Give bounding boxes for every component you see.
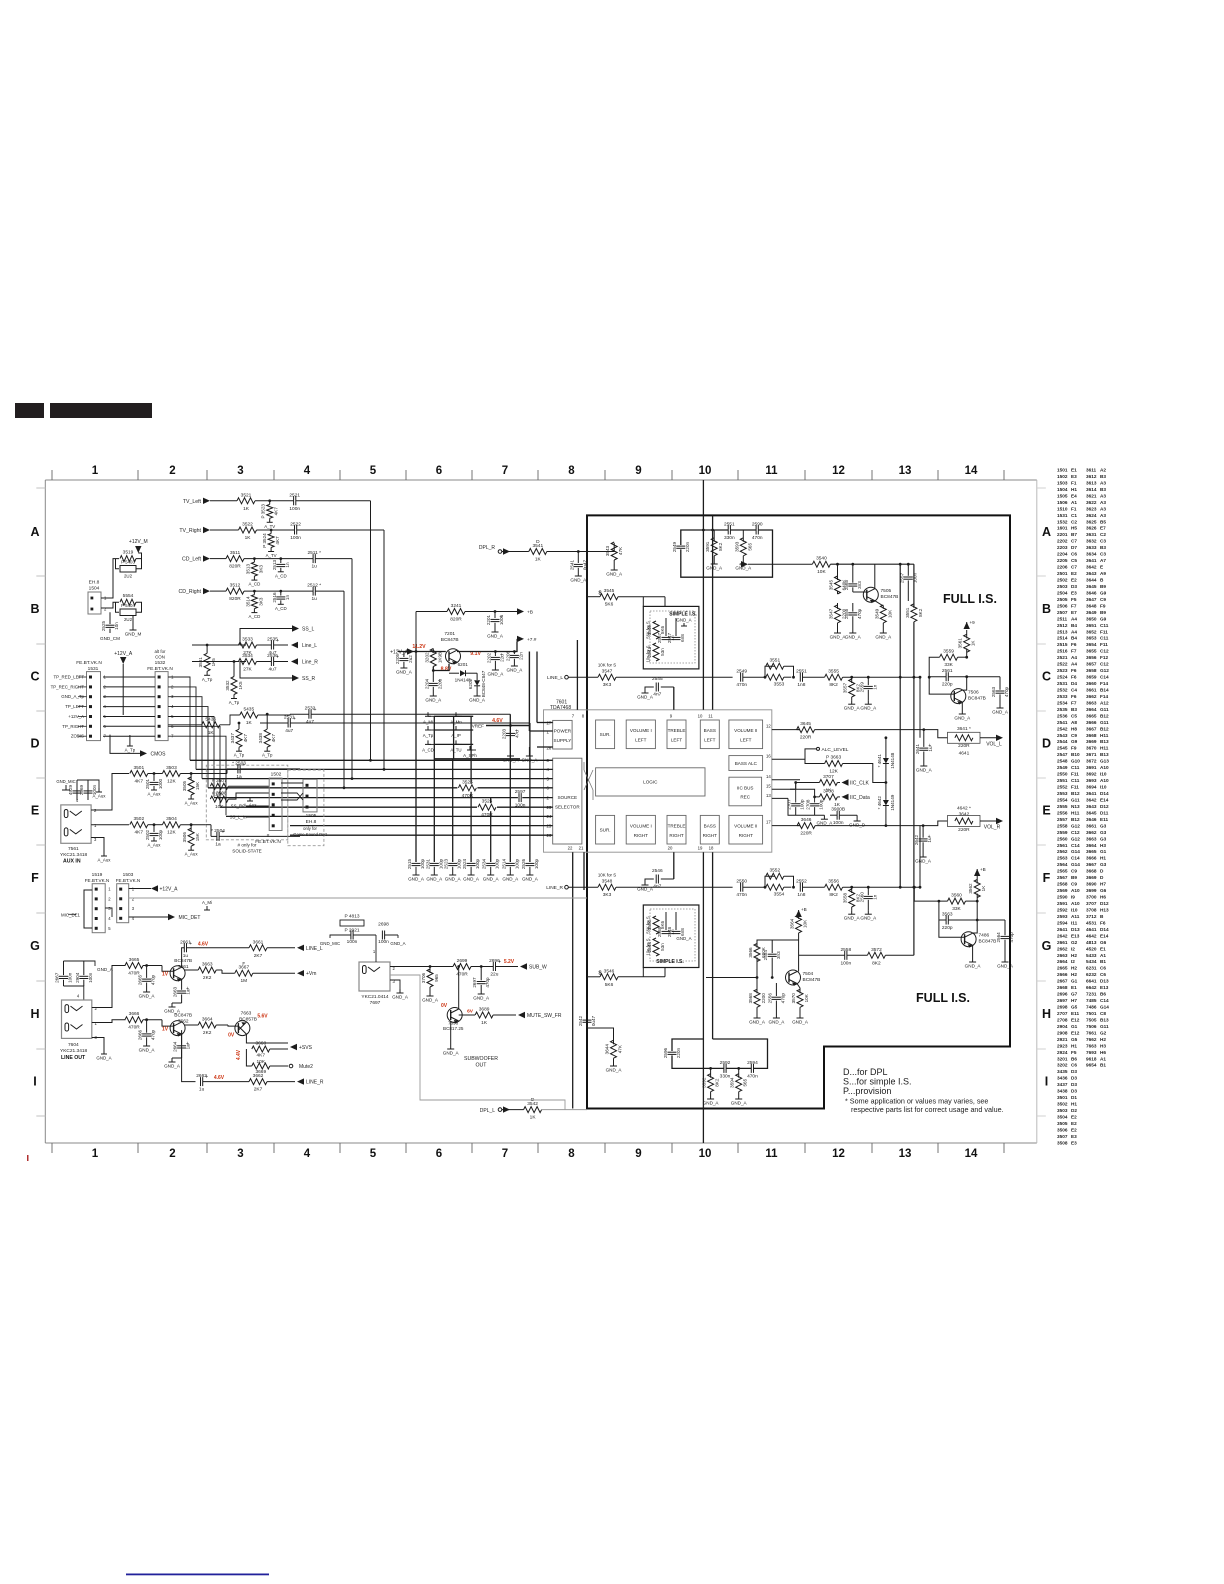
wire	[972, 945, 974, 958]
svg-text:3n3: 3n3	[776, 951, 781, 959]
capacitor 2559 1n shunt	[867, 676, 870, 679]
svg-text:3691: 3691	[1086, 765, 1097, 770]
wire	[168, 677, 190, 760]
svg-text:2541: 2541	[1057, 720, 1068, 725]
svg-text:3646: 3646	[1086, 817, 1097, 822]
svg-text:C6: C6	[1100, 972, 1106, 977]
svg-text:5K6: 5K6	[605, 602, 614, 608]
wire	[958, 656, 967, 658]
svg-text:3438: 3438	[1057, 1089, 1068, 1094]
svg-text:2561: 2561	[942, 668, 953, 674]
svg-text:2708: 2708	[806, 799, 811, 810]
svg-text:F7: F7	[1071, 603, 1077, 608]
wire	[796, 782, 820, 784]
svg-text:2200: 2200	[761, 993, 766, 1004]
capacitor 2531 4u7	[287, 719, 289, 728]
svg-text:3519: 3519	[123, 550, 134, 556]
svg-text:3646: 3646	[1086, 590, 1097, 595]
svg-text:3507: 3507	[1057, 1134, 1068, 1139]
svg-text:B: B	[1042, 602, 1051, 616]
svg-text:2559: 2559	[859, 682, 864, 693]
svg-text:BC847B: BC847B	[174, 1013, 192, 1019]
svg-text:C11: C11	[1100, 623, 1109, 628]
svg-text:A3: A3	[1100, 493, 1106, 498]
svg-text:H7: H7	[1100, 882, 1106, 887]
svg-text:2555: 2555	[1057, 804, 1068, 809]
ground GND_A	[509, 867, 511, 871]
resistor 3560 33K	[948, 898, 966, 904]
svg-text:3526: 3526	[482, 799, 493, 805]
svg-text:GND_A: GND_A	[521, 758, 538, 763]
svg-text:22n: 22n	[518, 652, 523, 660]
svg-text:1510: 1510	[1057, 506, 1068, 511]
svg-text:2908: 2908	[1057, 1030, 1068, 1035]
wire	[771, 940, 773, 953]
svg-text:P 5403: P 5403	[121, 560, 135, 565]
svg-text:G7: G7	[1071, 992, 1078, 997]
ground GND_D	[856, 815, 858, 817]
svg-text:3668: 3668	[255, 1041, 266, 1047]
svg-text:B6: B6	[1100, 992, 1106, 997]
wire	[962, 677, 966, 690]
svg-text:3672: 3672	[1086, 759, 1097, 764]
wire	[136, 559, 142, 569]
svg-text:GND_A: GND_A	[637, 695, 654, 700]
inductor 3519	[120, 556, 136, 562]
capacitor 2551 330n	[727, 526, 729, 535]
svg-text:* 2504: * 2504	[211, 828, 225, 834]
svg-text:3502: 3502	[133, 816, 144, 822]
capacitor 2535 4u7	[270, 641, 272, 650]
wire	[168, 697, 202, 779]
svg-text:B4: B4	[1071, 623, 1077, 628]
svg-text:2558: 2558	[840, 947, 851, 953]
wire	[494, 652, 496, 657]
svg-text:GND_A: GND_A	[916, 768, 933, 773]
svg-text:3201: 3201	[1057, 1056, 1068, 1061]
svg-text:6n8: 6n8	[680, 928, 685, 936]
wire	[182, 1030, 196, 1082]
svg-text:1u: 1u	[183, 953, 189, 959]
svg-text:A_Mi: A_Mi	[423, 719, 433, 724]
capacitor 2551 1n8	[799, 673, 801, 682]
svg-text:3661: 3661	[1086, 688, 1097, 693]
svg-text:5.6V: 5.6V	[257, 1014, 268, 1020]
wire	[390, 980, 400, 989]
svg-text:6232: 6232	[1086, 972, 1097, 977]
svg-text:3551: 3551	[905, 607, 910, 618]
svg-text:3668: 3668	[1086, 869, 1097, 874]
svg-text:3662: 3662	[1086, 694, 1097, 699]
svg-text:3712: 3712	[1086, 914, 1097, 919]
svg-text:1K: 1K	[208, 730, 215, 736]
svg-text:B13: B13	[1100, 739, 1109, 744]
svg-text:SIMPLE I.S.: SIMPLE I.S.	[656, 959, 684, 965]
wire	[138, 553, 141, 559]
svg-text:47K: 47K	[618, 546, 623, 555]
svg-text:3533: 3533	[242, 637, 253, 643]
svg-text:F5: F5	[1071, 597, 1077, 602]
wire	[645, 879, 654, 881]
svg-text:A_Tp: A_Tp	[234, 753, 245, 758]
svg-text:2707: 2707	[787, 799, 792, 810]
svg-text:3666: 3666	[1086, 856, 1097, 861]
svg-text:E1: E1	[1071, 468, 1077, 473]
svg-text:A_Aux: A_Aux	[185, 801, 199, 806]
svg-text:9: 9	[635, 465, 641, 477]
IC block BASS LEFT	[700, 720, 719, 749]
resistor P 3523 4K7	[268, 499, 271, 502]
svg-text:2: 2	[108, 896, 111, 901]
svg-text:BC817.25: BC817.25	[443, 1026, 464, 1031]
svg-text:0V: 0V	[228, 1033, 235, 1039]
svg-text:14: 14	[766, 774, 771, 779]
wire	[434, 758, 520, 760]
capacitor 2590 470n	[755, 526, 757, 535]
node Mute2	[289, 1064, 293, 1068]
svg-text:C12: C12	[1071, 830, 1080, 835]
resistor 3559 33K	[940, 654, 958, 660]
svg-text:7: 7	[572, 714, 575, 719]
svg-text:GND_A: GND_A	[408, 877, 425, 882]
svg-text:F9: F9	[1100, 603, 1106, 608]
wire	[103, 706, 155, 708]
wire	[765, 666, 775, 677]
svg-text:7486: 7486	[979, 933, 990, 939]
svg-text:GND_A: GND_A	[676, 936, 691, 941]
svg-text:GND_CM: GND_CM	[100, 636, 120, 641]
svg-text:2556: 2556	[1057, 810, 1068, 815]
svg-text:+B: +B	[527, 610, 533, 616]
svg-text:B9: B9	[1100, 584, 1106, 589]
bottom blue rule	[126, 1574, 269, 1576]
svg-text:15: 15	[766, 784, 771, 789]
resistor 3506 15K	[190, 823, 193, 826]
svg-text:1n8: 1n8	[797, 682, 805, 688]
svg-text:+12V_M: +12V_M	[129, 539, 148, 545]
svg-text:B: B	[30, 602, 39, 616]
svg-text:B6: B6	[1071, 1056, 1077, 1061]
svg-text:GND_A: GND_A	[390, 941, 405, 946]
resistor 3202 1K9B	[430, 649, 436, 667]
svg-text:10K: 10K	[887, 609, 892, 618]
svg-text:2516: 2516	[1057, 649, 1068, 654]
svg-text:2569: 2569	[79, 784, 84, 795]
svg-text:D14: D14	[1100, 791, 1109, 796]
ground stub A_TV	[253, 576, 255, 580]
svg-text:3646: 3646	[801, 817, 812, 823]
svg-text:2513: 2513	[1057, 629, 1068, 634]
svg-text:B12: B12	[1100, 713, 1109, 718]
capacitor 2560 1n shunt	[867, 886, 870, 889]
svg-text:12K: 12K	[167, 779, 176, 785]
svg-text:GND_A: GND_A	[915, 859, 932, 864]
svg-text:GND_A: GND_A	[426, 877, 443, 882]
svg-text:17: 17	[766, 820, 771, 825]
wire	[184, 1024, 198, 1026]
svg-text:10: 10	[698, 714, 703, 719]
svg-text:3559: 3559	[943, 649, 954, 655]
svg-text:1n: 1n	[285, 562, 290, 568]
svg-text:GND_A: GND_A	[860, 706, 877, 711]
svg-text:5436: 5436	[205, 716, 216, 722]
svg-text:2534: 2534	[1057, 700, 1068, 705]
svg-text:7506: 7506	[968, 690, 979, 696]
ground stub A_CD	[428, 743, 434, 745]
wire	[330, 935, 337, 938]
wire	[814, 797, 816, 803]
svg-text:LINE_L: LINE_L	[547, 675, 563, 681]
wire	[132, 616, 134, 627]
capacitor 2514 100p	[506, 862, 515, 864]
svg-text:F1: F1	[1071, 506, 1077, 511]
svg-text:F14: F14	[1100, 681, 1108, 686]
svg-text:2904: 2904	[1057, 1024, 1068, 1029]
capacitor 2513	[279, 557, 282, 560]
svg-text:3566: 3566	[748, 947, 753, 958]
svg-text:7485: 7485	[1086, 998, 1097, 1003]
svg-text:20: 20	[668, 846, 673, 851]
node VOL_L	[980, 737, 1000, 739]
svg-text:3641: 3641	[1086, 558, 1097, 563]
node +B entry	[741, 561, 748, 567]
svg-text:220p: 220p	[942, 682, 953, 688]
svg-text:G3: G3	[1100, 836, 1107, 841]
svg-text:3532: 3532	[225, 680, 230, 691]
svg-text:3K3: 3K3	[603, 682, 612, 688]
svg-text:MIC_DET: MIC_DET	[179, 915, 201, 921]
svg-text:3437: 3437	[230, 733, 235, 744]
svg-text:0V: 0V	[441, 1003, 448, 1009]
svg-text:A3: A3	[1100, 500, 1106, 505]
wire	[129, 916, 168, 918]
svg-text:E: E	[31, 804, 39, 818]
svg-text:F14: F14	[1100, 694, 1108, 699]
svg-text:POWER: POWER	[554, 729, 572, 734]
svg-text:3437: 3437	[1057, 1082, 1068, 1087]
node LINE_L out	[297, 945, 304, 951]
transistor Q7698 BC817.25	[447, 1008, 462, 1023]
svg-text:3556: 3556	[828, 879, 839, 885]
svg-text:A9: A9	[1100, 571, 1106, 576]
svg-text:0u47: 0u47	[582, 559, 587, 570]
wire	[516, 638, 519, 640]
node MIC_DET arrow	[168, 914, 175, 920]
svg-text:C7: C7	[1071, 565, 1077, 570]
svg-text:G14: G14	[1071, 862, 1080, 867]
ferrite P 5403 2U2	[120, 566, 136, 573]
svg-text:F: F	[31, 871, 39, 885]
svg-text:1M: 1M	[240, 978, 247, 984]
capacitor 2512 * 1u	[312, 587, 314, 596]
wire	[948, 919, 1005, 921]
svg-text:2206: 2206	[505, 650, 510, 661]
resistor 3564 10K	[796, 915, 802, 933]
svg-text:# 3507: # 3507	[212, 778, 227, 784]
svg-text:2661: 2661	[1057, 940, 1068, 945]
svg-text:3558: 3558	[843, 892, 848, 903]
svg-text:2502: 2502	[1057, 578, 1068, 583]
wire	[681, 530, 773, 577]
svg-text:GND_A: GND_A	[570, 578, 587, 583]
svg-text:470p: 470p	[485, 977, 490, 988]
svg-text:100p: 100p	[819, 799, 824, 810]
svg-text:3564: 3564	[790, 918, 795, 929]
svg-text:3501: 3501	[133, 765, 144, 771]
svg-text:F6: F6	[1100, 920, 1106, 925]
svg-text:SOURCE: SOURCE	[557, 795, 577, 800]
wire	[939, 920, 965, 937]
svg-text:1506: 1506	[1057, 500, 1068, 505]
svg-text:H11: H11	[1071, 810, 1080, 815]
svg-text:2548: 2548	[667, 926, 672, 937]
svg-text:470p: 470p	[151, 974, 156, 985]
resistor 3504 12K	[162, 822, 180, 828]
svg-text:C4: C4	[1071, 688, 1077, 693]
svg-text:C12: C12	[1100, 662, 1109, 667]
svg-text:GND_A: GND_A	[706, 566, 723, 571]
svg-text:3624: 3624	[1086, 513, 1097, 518]
svg-text:2563: 2563	[991, 686, 996, 697]
svg-text:3553: 3553	[774, 682, 785, 688]
ground GND_A	[415, 867, 417, 871]
svg-text:3634: 3634	[1086, 552, 1097, 557]
svg-text:2550: 2550	[1057, 772, 1068, 777]
svg-text:G10: G10	[1071, 759, 1080, 764]
ground stub A_TV	[253, 609, 255, 613]
svg-text:3662: 3662	[253, 1073, 264, 1079]
svg-text:Line_R: Line_R	[302, 660, 318, 666]
resistor 3550 5K6 (S)	[653, 916, 659, 934]
svg-text:2707: 2707	[1057, 1011, 1068, 1016]
svg-text:1531: 1531	[1057, 513, 1068, 518]
svg-text:1N4148: 1N4148	[890, 752, 895, 769]
svg-text:E2: E2	[1071, 571, 1077, 576]
svg-text:3633: 3633	[1086, 545, 1097, 550]
svg-text:G1: G1	[1071, 979, 1078, 984]
svg-text:2506: 2506	[1057, 603, 1068, 608]
svg-text:3202: 3202	[424, 652, 429, 663]
svg-text:7697: 7697	[370, 1000, 381, 1006]
svg-text:1: 1	[92, 1148, 99, 1160]
svg-text:B9: B9	[1100, 610, 1106, 615]
svg-text:100n: 100n	[378, 939, 389, 945]
svg-text:A_Aux: A_Aux	[93, 794, 107, 799]
svg-text:G3: G3	[1100, 823, 1107, 828]
svg-text:VOLUME I: VOLUME I	[630, 728, 652, 733]
svg-text:GND_A: GND_A	[703, 1101, 720, 1106]
svg-text:1K: 1K	[971, 640, 976, 647]
svg-text:I10: I10	[1100, 772, 1107, 777]
svg-text:A_Aux: A_Aux	[98, 858, 112, 863]
svg-text:2544: 2544	[1057, 739, 1068, 744]
svg-text:3503: 3503	[1057, 1108, 1068, 1113]
svg-text:4642 *: 4642 *	[957, 806, 971, 812]
svg-text:E11: E11	[1071, 1011, 1079, 1016]
svg-text:P 3663: P 3663	[826, 755, 841, 761]
svg-text:3546: 3546	[604, 968, 615, 974]
svg-text:RIGHT: RIGHT	[669, 833, 683, 838]
svg-text:470n: 470n	[736, 892, 747, 898]
svg-text:1n: 1n	[285, 595, 290, 601]
frame border	[45, 479, 1037, 481]
wire	[795, 783, 797, 790]
wire to bus	[296, 500, 371, 502]
svg-text:3625: 3625	[1086, 519, 1097, 524]
svg-text:C9: C9	[1071, 882, 1077, 887]
resistor 3645 220R	[797, 727, 815, 733]
ground GND_A	[433, 867, 435, 871]
svg-text:D13: D13	[1071, 927, 1080, 932]
resistor 3641 220R with 4641 link	[955, 735, 973, 741]
wire	[920, 730, 948, 738]
svg-text:1K: 1K	[535, 557, 542, 563]
svg-text:1u: 1u	[312, 596, 318, 602]
wire	[168, 736, 226, 815]
svg-text:3665: 3665	[1086, 713, 1097, 718]
svg-text:1505: 1505	[306, 813, 317, 819]
node CMOS	[140, 750, 147, 756]
svg-text:10: 10	[699, 1148, 712, 1160]
svg-text:1532: 1532	[1057, 519, 1068, 524]
wire	[843, 764, 886, 783]
svg-text:SUB_W: SUB_W	[529, 965, 547, 971]
resistor 3646 220R	[797, 823, 815, 829]
svg-text:2642: 2642	[914, 834, 919, 845]
svg-text:3: 3	[237, 465, 243, 477]
svg-text:C9: C9	[1071, 869, 1077, 874]
svg-text:G9: G9	[1071, 739, 1078, 744]
svg-text:P...provision: P...provision	[843, 1086, 891, 1096]
svg-text:H13: H13	[1100, 908, 1109, 913]
wire to bus	[297, 529, 384, 531]
svg-text:I9: I9	[1071, 895, 1075, 900]
svg-text:6642: 6642	[1086, 985, 1097, 990]
svg-text:3594: 3594	[730, 1077, 735, 1088]
wire	[457, 642, 517, 652]
resistor P 3524 4K7	[270, 529, 273, 532]
svg-text:2531: 2531	[425, 858, 430, 869]
svg-text:ALC_LEVEL: ALC_LEVEL	[822, 747, 849, 753]
svg-text:47K: 47K	[618, 1044, 623, 1053]
ruler ticks left	[36, 487, 45, 489]
wire	[92, 966, 126, 1008]
resistor 3531 1K5	[204, 653, 210, 671]
svg-text:2551: 2551	[724, 522, 735, 528]
svg-text:GND_A: GND_A	[816, 821, 833, 826]
svg-text:SUR.: SUR.	[600, 828, 611, 833]
svg-text:3551: 3551	[769, 658, 780, 664]
svg-text:2666: 2666	[1057, 972, 1068, 977]
svg-text:G11: G11	[1100, 707, 1109, 712]
svg-text:4.4V: 4.4V	[236, 1049, 242, 1060]
resistor 3514 3K3	[253, 590, 256, 593]
svg-text:3554: 3554	[774, 892, 785, 898]
svg-text:GND_A: GND_A	[96, 1056, 111, 1061]
svg-text:2: 2	[132, 896, 135, 901]
svg-text:565: 565	[743, 1078, 748, 1086]
wire	[172, 1057, 182, 1059]
ground GND_A	[470, 867, 472, 871]
svg-text:GND_A: GND_A	[164, 1064, 181, 1069]
svg-text:4642: 4642	[1086, 933, 1097, 938]
svg-text:A_TV: A_TV	[264, 524, 275, 529]
svg-text:C3: C3	[1100, 539, 1106, 544]
svg-text:2667: 2667	[1057, 979, 1068, 984]
wire	[192, 644, 239, 646]
node SS_R	[292, 675, 299, 681]
svg-text:F11: F11	[1071, 785, 1079, 790]
